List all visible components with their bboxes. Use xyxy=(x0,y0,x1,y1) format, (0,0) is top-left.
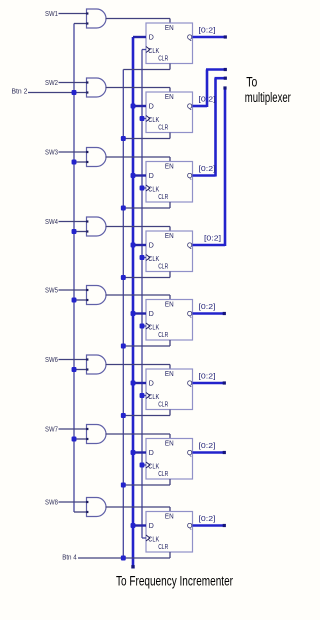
svg-text:D: D xyxy=(149,35,154,42)
svg-text:SW7: SW7 xyxy=(45,425,58,434)
svg-text:Q: Q xyxy=(187,311,193,318)
svg-text:[0:2]: [0:2] xyxy=(199,164,216,173)
svg-text:EN: EN xyxy=(165,440,174,447)
svg-text:D: D xyxy=(149,243,154,250)
svg-text:EN: EN xyxy=(165,163,174,170)
svg-text:EN: EN xyxy=(165,25,174,32)
svg-text:SW1: SW1 xyxy=(45,9,58,18)
svg-text:[0:2]: [0:2] xyxy=(199,95,216,104)
svg-text:SW8: SW8 xyxy=(45,498,58,507)
svg-text:[0:2]: [0:2] xyxy=(199,372,216,381)
svg-text:Q: Q xyxy=(187,104,193,111)
svg-text:D: D xyxy=(149,523,154,530)
svg-text:D: D xyxy=(149,173,154,180)
svg-text:SW3: SW3 xyxy=(45,148,58,157)
svg-text:Q: Q xyxy=(187,450,193,457)
svg-text:Q: Q xyxy=(187,35,193,42)
svg-text:[0:2]: [0:2] xyxy=(199,441,216,450)
svg-text:Q: Q xyxy=(187,173,193,180)
svg-text:multiplexer: multiplexer xyxy=(245,90,291,105)
svg-text:CLR: CLR xyxy=(158,125,168,132)
svg-text:EN: EN xyxy=(165,301,174,308)
svg-text:SW2: SW2 xyxy=(45,78,58,87)
svg-text:EN: EN xyxy=(165,513,174,520)
svg-text:To: To xyxy=(246,75,257,90)
svg-text:[0:2]: [0:2] xyxy=(204,234,221,243)
svg-text:D: D xyxy=(149,104,154,111)
svg-text:Btn 4: Btn 4 xyxy=(62,553,77,562)
svg-text:Q: Q xyxy=(187,381,193,388)
svg-text:SW6: SW6 xyxy=(45,355,58,364)
svg-text:EN: EN xyxy=(165,94,174,101)
svg-text:CLR: CLR xyxy=(158,471,168,478)
svg-text:SW4: SW4 xyxy=(45,217,58,226)
svg-text:Q: Q xyxy=(187,523,193,530)
svg-text:[0:2]: [0:2] xyxy=(199,26,216,35)
svg-text:CLR: CLR xyxy=(158,194,168,201)
svg-text:Q: Q xyxy=(187,243,193,250)
svg-text:CLR: CLR xyxy=(158,264,168,271)
svg-text:EN: EN xyxy=(165,233,174,240)
svg-text:CLR: CLR xyxy=(158,544,168,551)
svg-text:[0:2]: [0:2] xyxy=(199,514,216,523)
svg-text:To Frequency Incrementer: To Frequency Incrementer xyxy=(116,574,233,589)
svg-text:D: D xyxy=(149,311,154,318)
svg-text:CLR: CLR xyxy=(158,332,168,339)
svg-text:D: D xyxy=(149,381,154,388)
svg-text:D: D xyxy=(149,450,154,457)
svg-text:CLR: CLR xyxy=(158,56,168,63)
svg-text:[0:2]: [0:2] xyxy=(199,302,216,311)
svg-text:CLR: CLR xyxy=(158,402,168,409)
svg-text:Btn 2: Btn 2 xyxy=(12,87,28,96)
svg-text:EN: EN xyxy=(165,371,174,378)
svg-text:SW5: SW5 xyxy=(45,286,58,295)
